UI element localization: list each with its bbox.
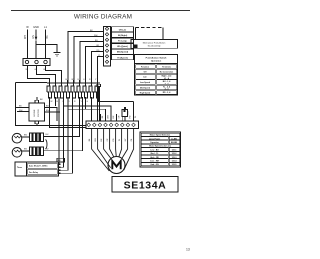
svg-text:Fn Lamp: Fn Lamp	[118, 41, 127, 43]
svg-text:Function: Function	[141, 65, 150, 68]
svg-text:W: W	[26, 69, 29, 71]
switch legend labels	[112, 27, 134, 60]
svg-text:BN: BN	[24, 149, 27, 151]
svg-text:Md (Speed): Md (Speed)	[117, 52, 129, 54]
svg-text:Off-Lite: Off-Lite	[119, 28, 127, 31]
motor leads	[92, 129, 110, 172]
svg-text:WH: WH	[24, 35, 27, 39]
motor lead labels	[89, 138, 133, 142]
svg-text:O: O	[68, 101, 70, 103]
harness drops to connector	[55, 97, 57, 106]
wire legend row4 to harness	[86, 47, 104, 84]
wire line L1 supply	[45, 30, 47, 59]
svg-text:High Speed: High Speed	[140, 93, 151, 95]
svg-text:BU: BU	[46, 148, 49, 150]
svg-text:Y: Y	[95, 79, 97, 81]
svg-text:BU: BU	[46, 134, 49, 136]
svg-text:W: W	[51, 101, 53, 103]
harness drop labels	[51, 101, 89, 103]
svg-text:Wh (Quiet): Wh (Quiet)	[117, 45, 128, 48]
svg-text:G: G	[87, 101, 89, 103]
lamp2 wire to harness	[44, 97, 83, 151]
wire strip to harness 3	[46, 66, 62, 84]
harness wire color labels	[66, 30, 102, 81]
filter left leads	[16, 108, 30, 112]
svg-text:Med - YL: Med - YL	[151, 153, 160, 155]
svg-text:BK: BK	[46, 35, 49, 39]
harness drops to timer	[59, 97, 61, 164]
svg-text:YL: YL	[135, 116, 137, 118]
harness connector top ticks	[50, 80, 98, 86]
title rule	[11, 10, 190, 12]
svg-text:BU: BU	[113, 115, 115, 118]
svg-text:Push-Button Switch: Push-Button Switch	[146, 57, 167, 60]
svg-text:Lite: Lite	[143, 76, 146, 79]
svg-text:R: R	[74, 101, 76, 103]
svg-text:O: O	[83, 79, 85, 81]
svg-text:WIRING DIAGRAM: WIRING DIAGRAM	[74, 14, 132, 21]
svg-text:L1-BN: L1-BN	[171, 138, 177, 140]
svg-text:FILTER: FILTER	[38, 109, 40, 117]
ground symbol	[54, 53, 61, 57]
svg-text:GND: GND	[33, 25, 39, 29]
svg-text:L1: L1	[44, 25, 47, 29]
lamp1 wire to harness	[44, 97, 80, 137]
svg-text:Sw. Assembly: Sw. Assembly	[148, 45, 162, 48]
wire left bus neutral	[16, 83, 87, 126]
timer terminal box	[15, 162, 59, 176]
link pin legend to assembly	[134, 44, 138, 48]
svg-text:Terminals: Terminals	[162, 66, 171, 68]
wire strip to harness 1	[28, 66, 50, 84]
svg-text:Motor Speed-Colors (m): Motor Speed-Colors (m)	[149, 145, 171, 148]
wire legend row5 to harness	[92, 52, 104, 84]
wire legend row2 to harness	[74, 37, 103, 84]
polarity mark	[123, 109, 125, 112]
wire legend row3 to harness	[80, 42, 103, 84]
svg-text:BK: BK	[102, 115, 104, 118]
svg-text:WH: WH	[19, 110, 23, 112]
lamp socket 2	[22, 150, 30, 152]
svg-text:123-2: 123-2	[172, 153, 177, 155]
wire legend row6 to harness	[98, 57, 104, 84]
filter right leads	[45, 108, 61, 122]
svg-text:2 - 3: 2 - 3	[165, 83, 169, 85]
harness connector top line	[47, 82, 100, 84]
svg-text:Mechanical Push-Button: Mechanical Push-Button	[143, 41, 166, 44]
svg-text:Operation: Operation	[151, 60, 162, 63]
svg-text:YL: YL	[119, 139, 121, 141]
wire neutral supply	[27, 30, 29, 59]
push-button caption box	[131, 40, 178, 49]
timer box stubs	[59, 163, 61, 165]
filter bottom tab	[35, 121, 39, 124]
svg-text:2 - 3: 2 - 3	[165, 89, 169, 91]
lamp L1	[12, 133, 22, 143]
svg-text:Hi (Speed): Hi (Speed)	[117, 57, 128, 59]
wire strip to harness 2	[37, 66, 56, 84]
svg-text:Lamp Power: Lamp Power	[149, 138, 161, 140]
svg-text:Fan Delay: Fan Delay	[29, 172, 39, 174]
svg-text:WH: WH	[94, 35, 98, 37]
lamp L2	[12, 148, 22, 158]
svg-text:GY: GY	[125, 138, 127, 141]
svg-text:GN: GN	[32, 35, 35, 39]
connector pin stub C	[99, 114, 101, 121]
wire ground supply with arrow	[35, 30, 37, 38]
harness connector row 2	[47, 92, 100, 98]
svg-text:Com - WH: Com - WH	[150, 161, 160, 163]
harness drop to filter loop	[50, 97, 87, 128]
harness connector row 1	[47, 86, 100, 92]
thermal protector TP1	[124, 107, 126, 110]
lamp link wire	[46, 140, 48, 150]
svg-text:High - RD: High - RD	[150, 157, 159, 159]
svg-text:Low - BU: Low - BU	[150, 149, 159, 151]
svg-text:W: W	[72, 79, 74, 81]
svg-text:Low Speed: Low Speed	[140, 82, 151, 84]
svg-text:No Connection: No Connection	[160, 70, 174, 73]
svg-text:BK: BK	[40, 99, 43, 101]
motor M1	[108, 157, 125, 174]
motor connector strip	[86, 121, 139, 129]
svg-text:123-5: 123-5	[172, 164, 177, 166]
svg-text:WH: WH	[107, 115, 109, 119]
svg-text:Timer: Timer	[17, 167, 22, 169]
noise filter FL1	[29, 103, 45, 121]
filter top tab	[35, 100, 39, 103]
svg-text:Auto Shutoff - 30Min: Auto Shutoff - 30Min	[29, 165, 48, 168]
svg-text:123-3: 123-3	[172, 157, 177, 159]
svg-text:OR: OR	[107, 138, 109, 141]
svg-text:OR: OR	[118, 115, 120, 118]
svg-text:B: B	[57, 101, 59, 103]
svg-text:SE134A: SE134A	[124, 179, 167, 191]
svg-text:RD - 3, 4: RD - 3, 4	[163, 91, 172, 94]
wire bus drop to connector	[132, 102, 134, 122]
connector pin labels mid	[102, 115, 137, 119]
harness end termination bar	[97, 87, 100, 103]
svg-text:BU: BU	[101, 138, 103, 141]
wire ground branch	[36, 45, 57, 53]
svg-text:13: 13	[186, 248, 190, 252]
svg-text:R: R	[89, 79, 91, 81]
svg-text:Gnd - GN: Gnd - GN	[150, 164, 159, 166]
connector pin stub B	[121, 114, 123, 121]
model label SE134A	[112, 177, 178, 193]
wire main bus right	[100, 101, 134, 103]
svg-text:123-1: 123-1	[172, 149, 177, 151]
svg-text:BN: BN	[24, 135, 27, 137]
wire color table	[140, 132, 181, 167]
svg-text:Med Speed: Med Speed	[140, 88, 151, 90]
svg-text:Capacitor: Capacitor	[150, 141, 159, 144]
switch legend column	[104, 27, 111, 67]
connector pin stub A	[116, 114, 118, 121]
svg-text:BK: BK	[89, 138, 91, 141]
push-button operation table	[135, 55, 178, 96]
svg-text:U: U	[63, 101, 65, 103]
svg-text:Off: Off	[144, 71, 147, 73]
svg-text:Motor Speed Selection: Motor Speed Selection	[150, 134, 171, 137]
svg-text:RD: RD	[113, 138, 115, 141]
svg-text:RD: RD	[130, 115, 132, 118]
svg-text:PK: PK	[131, 138, 133, 141]
svg-text:WH: WH	[95, 138, 97, 142]
push-button switch assembly box	[136, 27, 164, 29]
svg-text:NOISE: NOISE	[34, 109, 36, 116]
terminal strip TB1	[23, 59, 50, 66]
svg-text:Ni (Night): Ni (Night)	[118, 34, 128, 37]
wire legend row1 to harness	[68, 32, 103, 84]
svg-text:TCO: TCO	[128, 110, 130, 115]
lamp socket 1	[22, 136, 30, 138]
svg-text:BU-BN: BU-BN	[171, 142, 178, 144]
svg-text:W: W	[26, 25, 29, 29]
